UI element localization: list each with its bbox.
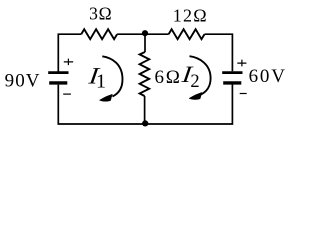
svg-text:1: 1 xyxy=(96,71,106,93)
battery V1 90V bottom plate xyxy=(49,81,67,84)
wire middle upper stub xyxy=(144,33,146,52)
junction node bottom xyxy=(142,120,148,126)
wire top-middle segment xyxy=(117,33,169,35)
wire top-left segment with corner xyxy=(58,34,81,72)
battery V1 90V top plate xyxy=(48,71,68,74)
wire middle lower stub xyxy=(144,96,146,124)
svg-text:90V: 90V xyxy=(5,71,41,92)
svg-text:3Ω: 3Ω xyxy=(89,4,112,24)
svg-text:2: 2 xyxy=(190,72,199,92)
mesh current I1 arc xyxy=(102,56,122,96)
mesh current I1 arrowhead xyxy=(99,94,112,101)
wire top-right segment with corner xyxy=(205,34,233,71)
wire bottom-left segment with corner xyxy=(58,85,145,124)
svg-text:6Ω: 6Ω xyxy=(155,67,182,88)
junction node top xyxy=(142,30,148,36)
resistor R3 6ohm vertical zigzag xyxy=(140,52,150,96)
svg-text:60V: 60V xyxy=(249,66,287,87)
wire right-lower segment with corner xyxy=(145,84,232,124)
battery V2 60V top plate xyxy=(222,71,242,74)
mesh current I2 arc xyxy=(190,56,211,94)
battery V2 60V bottom plate xyxy=(223,81,241,84)
resistor R1 3ohm zigzag xyxy=(81,29,117,39)
minus sign of V2 xyxy=(240,93,247,95)
plus sign of V2 xyxy=(237,60,246,67)
mesh current I2 arrowhead xyxy=(189,92,202,99)
plus sign of V1 xyxy=(64,59,73,66)
svg-text:12Ω: 12Ω xyxy=(173,6,208,26)
resistor R2 12ohm zigzag xyxy=(169,29,205,39)
minus sign of V1 xyxy=(63,93,71,95)
